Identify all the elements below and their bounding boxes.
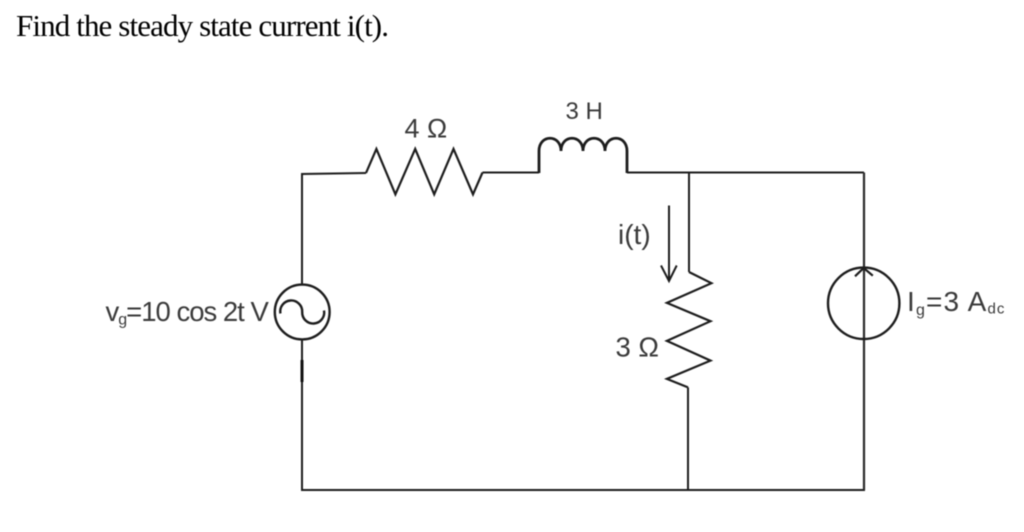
wire: middle branch vertical lower xyxy=(687,387,689,490)
wire: thicker overlap segment below VS xyxy=(301,360,304,382)
resistor R2 3-ohm zigzag (vertical) xyxy=(667,272,712,387)
svg-text:3 Ω: 3 Ω xyxy=(616,331,660,362)
resistor R1 4-ohm zigzag xyxy=(366,149,483,194)
wire: bottom horizontal xyxy=(301,489,865,491)
svg-text:4 Ω: 4 Ω xyxy=(405,114,448,144)
svg-text:vg=10 cos 2t V: vg=10 cos 2t V xyxy=(106,296,270,329)
wire: middle branch vertical upper xyxy=(688,173,690,273)
wire: left vertical top (corner to VS) xyxy=(302,173,366,285)
voltage source sine symbol xyxy=(280,300,324,323)
voltage source U1 circle xyxy=(275,285,330,340)
svg-text:Ig=3 Adc: Ig=3 Adc xyxy=(907,286,1006,319)
current arrow i(t) xyxy=(661,206,677,282)
svg-text:i(t): i(t) xyxy=(618,219,651,250)
wire: top right from L1 to right branch xyxy=(627,172,864,174)
current source I1 circle xyxy=(828,268,899,339)
inductor L1 3 H xyxy=(539,138,627,173)
wire: right branch vertical xyxy=(863,173,865,491)
current source arrowhead xyxy=(855,268,873,276)
wire: left vertical below VS xyxy=(301,339,303,490)
wire: between R1 and L1 xyxy=(483,172,540,174)
svg-text:3 H: 3 H xyxy=(566,98,603,125)
svg-text:Find the steady state current: Find the steady state current i(t). xyxy=(16,8,389,43)
